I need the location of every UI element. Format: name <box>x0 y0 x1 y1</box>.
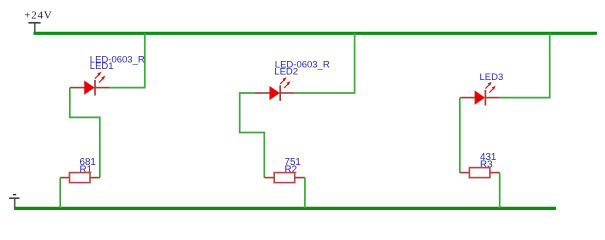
label R3 value 431 <box>480 152 496 163</box>
label R2 value 751 <box>285 157 301 168</box>
wire top rail to LED1 cathode <box>110 33 145 88</box>
svg-text:LED1: LED1 <box>90 61 114 72</box>
LED LED1 <box>70 72 110 96</box>
label R1 refdes <box>80 164 93 175</box>
resistor R1 <box>60 173 100 183</box>
label R3 refdes <box>480 159 493 170</box>
wire LED3 anode to R3 <box>459 98 461 173</box>
svg-text:+24V: +24V <box>24 10 52 22</box>
wire top rail to LED3 cathode <box>500 33 550 98</box>
power flag minus <box>9 195 19 208</box>
label R1 value 681 <box>80 157 96 168</box>
LED LED3 <box>460 82 500 106</box>
LED LED2 <box>255 77 295 101</box>
label LED3 refdes <box>480 72 504 83</box>
power flag +24V <box>28 23 40 33</box>
label LED1 value LED-0603_R <box>90 54 145 65</box>
wire top +24V rail <box>34 32 598 35</box>
label LED1 refdes <box>90 61 114 72</box>
label LED2 refdes <box>274 66 298 77</box>
wire R1 to bottom rail <box>59 178 61 208</box>
net label +24V <box>24 10 52 22</box>
wire LED1 anode to R1 <box>70 88 100 178</box>
resistor R2 <box>264 173 305 183</box>
svg-text:LED3: LED3 <box>480 72 504 83</box>
wire top rail to LED2 cathode <box>295 33 355 93</box>
wire LED2 anode to R2 <box>240 93 265 178</box>
label R2 refdes <box>285 164 298 175</box>
svg-text:R3: R3 <box>480 159 493 170</box>
resistor R3 <box>460 168 500 178</box>
wire R3 to bottom rail <box>499 173 501 208</box>
wire R2 to bottom rail <box>304 178 306 208</box>
label LED2 value LED-0603_R <box>275 59 330 70</box>
wire bottom negative rail <box>14 207 556 210</box>
svg-text:LED2: LED2 <box>274 66 298 77</box>
